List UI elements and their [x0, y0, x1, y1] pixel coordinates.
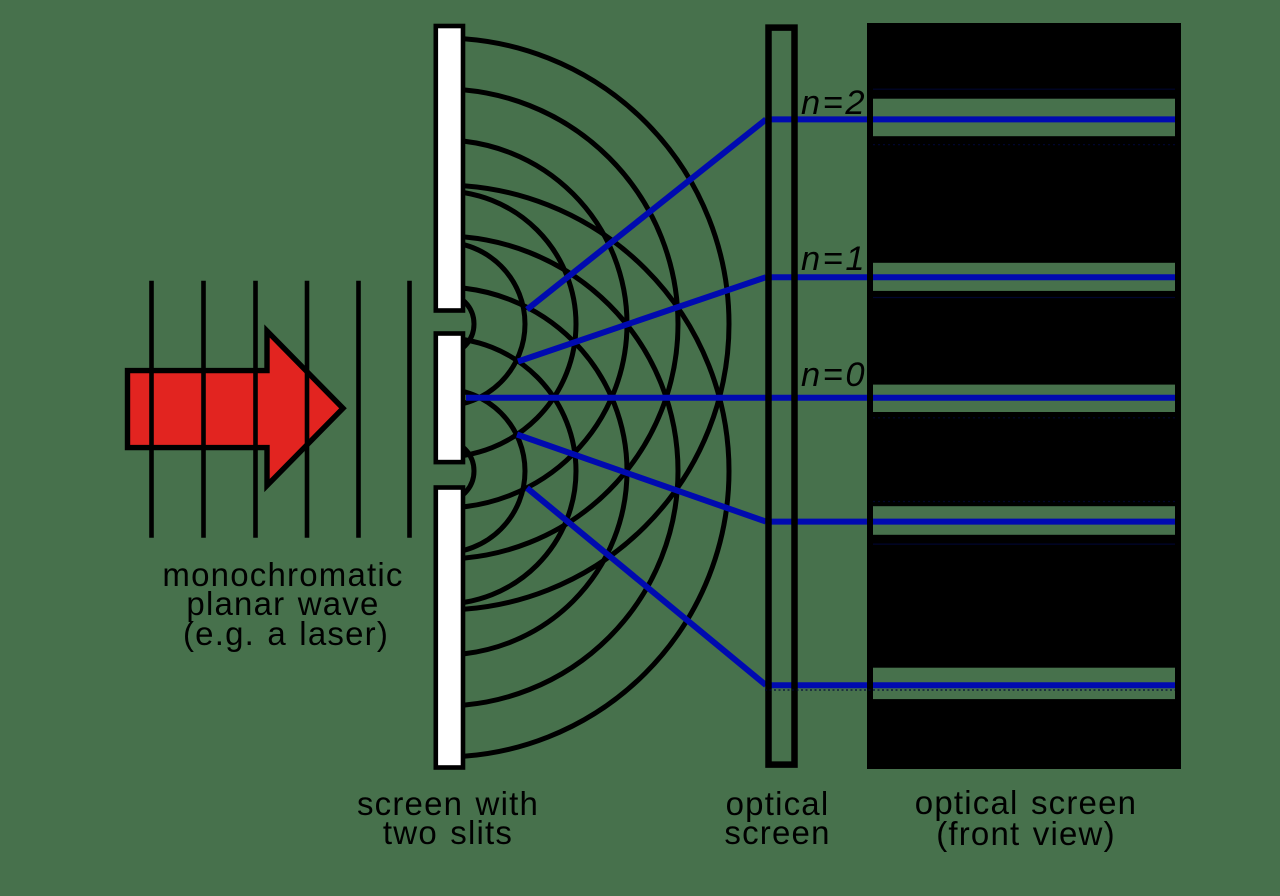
ray n=2 down — [527, 488, 766, 685]
barrier bottom bar — [436, 488, 463, 768]
wavefront arc slit2 r31 — [412, 440, 474, 502]
fringe band n=-2 — [873, 668, 1175, 699]
svg-text:n=2: n=2 — [801, 84, 867, 122]
fringe line n=1 — [873, 274, 1175, 280]
optical screen front view panel — [867, 23, 1181, 769]
red arrow (monochromatic planar wave) — [128, 331, 344, 486]
wavefront arc slit2 r82 — [361, 389, 525, 553]
planar wavefront line 5 — [356, 281, 361, 538]
wavefront arc slit1 r133 — [310, 191, 576, 457]
horizontal ray n=-1 to panel — [766, 519, 869, 525]
optical screen (side view) — [769, 28, 795, 765]
horizontal ray n=-2 to panel — [766, 682, 869, 688]
fringe band n=1 — [873, 263, 1175, 291]
fringe band n=2 — [873, 99, 1175, 137]
planar wavefront line 4 — [305, 281, 310, 538]
planar wavefront line 2 — [201, 281, 206, 538]
dotted guide line below n=0 band — [873, 417, 1175, 419]
fringe band n=-1 — [873, 506, 1175, 535]
svg-text:n=0: n=0 — [801, 356, 867, 394]
planar wavefront line 6 — [407, 281, 412, 538]
fringe line n=0 — [873, 395, 1175, 401]
wavefront arc slit2 r184 — [259, 287, 627, 655]
wavefront arc slit1 r82 — [361, 242, 525, 406]
fringe line n=2 — [873, 116, 1175, 122]
faint guide line above n=2 band — [873, 88, 1175, 90]
faint guide line below n=-1 band — [873, 543, 1175, 545]
faint construction lines on panel — [765, 89, 1175, 690]
barrier middle bar — [436, 334, 463, 463]
barrier: screen with two slits (top bar) — [436, 26, 463, 311]
svg-text:(e.g. a laser): (e.g. a laser) — [183, 615, 389, 652]
wavefront arc slit1 r235 — [208, 89, 678, 559]
wavefront arc slit2 r133 — [310, 338, 576, 604]
planar wavefront line 1 — [149, 281, 154, 538]
horizontal ray n=0 to panel — [766, 395, 869, 401]
wavefront arc slit1 r184 — [259, 140, 627, 508]
dotted guide line below n=2 band — [873, 144, 1175, 146]
fringe line n=-1 — [873, 519, 1175, 525]
fringe line n=-2 — [873, 682, 1175, 688]
ray n=0 — [466, 395, 766, 401]
horizontal ray n=2 to panel — [766, 116, 869, 122]
svg-text:screen: screen — [724, 814, 830, 851]
fringe blue lines — [873, 119, 1175, 685]
ray n=2 up — [527, 119, 766, 309]
blue rays — [466, 119, 869, 685]
wavefront arc slit1 r31 — [412, 293, 474, 355]
fringe band n=0 — [873, 385, 1175, 412]
dotted guide line above n=-1 band — [873, 501, 1175, 503]
ray n=1 down — [517, 435, 766, 522]
ray n=1 up — [518, 277, 766, 361]
faint guide line below n=1 band — [873, 297, 1175, 299]
wavefront arc slit1 r286 — [157, 38, 729, 610]
svg-text:two slits: two slits — [383, 814, 513, 851]
svg-text:(front view): (front view) — [936, 815, 1116, 852]
wavefront arc slit2 r286 — [157, 185, 729, 757]
circular wavefronts from the two slits — [157, 38, 729, 757]
wavefront arc slit2 r235 — [208, 236, 678, 706]
svg-text:n=1: n=1 — [801, 240, 867, 278]
planar wavefront line 3 — [253, 281, 258, 538]
dotted guide line below n=-2 ray — [765, 689, 1175, 691]
horizontal ray n=1 to panel — [766, 274, 869, 280]
